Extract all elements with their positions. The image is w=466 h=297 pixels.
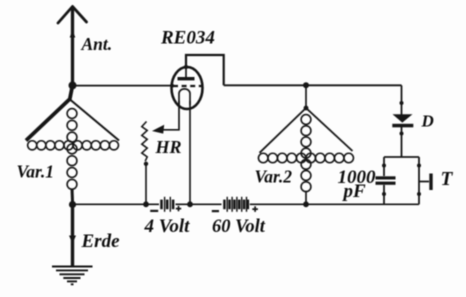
svg-text:60 Volt: 60 Volt bbox=[212, 217, 266, 237]
variometer Var.2 vertical coil bbox=[301, 115, 311, 192]
variometer Var.1 thick lead to coil bbox=[26, 85, 73, 140]
tube U1 filament loop bbox=[179, 89, 190, 105]
antenna lead wire bbox=[71, 7, 74, 85]
wire capacitor branch top bbox=[383, 157, 385, 176]
node above diode bbox=[400, 101, 404, 105]
wire junction to tube grid bbox=[73, 85, 173, 87]
wire diode to split bbox=[384, 127, 419, 157]
earth small arrow marker bbox=[69, 236, 76, 244]
node Var.2 rail bbox=[303, 201, 309, 207]
tube U1 envelope bbox=[172, 67, 203, 109]
battery B1 minus sign bbox=[150, 210, 158, 212]
node capacitor branch top bbox=[382, 164, 386, 168]
earphone T bar bbox=[429, 174, 432, 191]
diode D cathode bar bbox=[392, 124, 413, 128]
node HR rail bbox=[143, 201, 149, 207]
node below diode bbox=[400, 132, 404, 136]
rheostat wiper arrow bbox=[152, 125, 164, 134]
battery B1 4 Volt bbox=[160, 197, 174, 212]
svg-text:HR: HR bbox=[155, 137, 182, 157]
node Var.2 apex bbox=[304, 106, 309, 111]
variometer Var.2 frame diagonals bbox=[260, 108, 353, 153]
wire rail segment right bbox=[250, 203, 419, 205]
battery B2 plus sign bbox=[252, 206, 258, 212]
wire Var.1 coil bottom to rail bbox=[71, 189, 75, 202]
earphone T stub bbox=[419, 181, 429, 183]
wire plate line down to diode bbox=[401, 85, 403, 114]
battery B2 60 Volt bbox=[223, 197, 249, 212]
wire HR to rail bbox=[145, 164, 147, 205]
wire rail segment left bbox=[73, 203, 160, 205]
svg-text:T: T bbox=[441, 169, 454, 190]
svg-text:pF: pF bbox=[342, 181, 367, 202]
svg-text:D: D bbox=[421, 112, 434, 131]
node filament rail bbox=[187, 201, 193, 207]
label 1000 pF bbox=[338, 167, 377, 202]
svg-text:Var.1: Var.1 bbox=[17, 162, 54, 182]
node HR bottom bbox=[144, 162, 148, 166]
antenna arrowhead bbox=[58, 7, 87, 24]
tube U1 grid dashed bbox=[173, 85, 202, 87]
wire filament left leg bbox=[163, 101, 180, 130]
tube U1 anode lead inside bbox=[185, 67, 187, 77]
node tube top bbox=[184, 65, 188, 69]
svg-text:RE034: RE034 bbox=[160, 28, 215, 49]
node capacitor branch bottom bbox=[382, 192, 386, 196]
antenna small arrow marker bbox=[70, 30, 76, 38]
node T branch bottom bbox=[417, 192, 421, 196]
variometer Var.1 horizontal coil bbox=[28, 141, 119, 150]
wire filament right leg to rail bbox=[189, 101, 191, 204]
battery B1 plus sign bbox=[176, 206, 181, 211]
node grid connection bbox=[170, 84, 174, 88]
node T branch top bbox=[417, 164, 421, 168]
node anode wire / Var.2 bbox=[303, 82, 309, 88]
node junction coil/rail/earth bbox=[69, 201, 76, 208]
variometer Var.1 vertical coil bbox=[67, 109, 77, 190]
wire earth lead bbox=[71, 205, 74, 267]
node junction antenna/coil/grid bbox=[69, 81, 77, 89]
ground symbol Erde bbox=[52, 267, 93, 285]
diode D triangle bbox=[393, 114, 413, 122]
wire T branch bbox=[418, 157, 420, 204]
svg-text:4 Volt: 4 Volt bbox=[144, 216, 191, 237]
svg-text:Erde: Erde bbox=[81, 231, 121, 252]
wire Var.2 stem bbox=[305, 85, 307, 108]
svg-text:Var.2: Var.2 bbox=[255, 167, 293, 187]
resistor HR zigzag bbox=[142, 122, 147, 162]
tube U1 anode plate bbox=[178, 77, 195, 80]
variometer Var.2 horizontal coil bbox=[258, 153, 353, 163]
variometer Var.1 right frame diagonal bbox=[70, 100, 119, 141]
wire rail segment middle bbox=[176, 203, 222, 205]
battery B2 minus sign bbox=[212, 210, 219, 212]
svg-text:Ant.: Ant. bbox=[81, 34, 113, 54]
wire anode to plate line bbox=[186, 55, 224, 85]
wire capacitor branch bottom bbox=[383, 185, 385, 204]
capacitor C1 1000pF plates bbox=[376, 176, 396, 185]
wire Var.2 coil bottom to rail bbox=[305, 191, 307, 204]
